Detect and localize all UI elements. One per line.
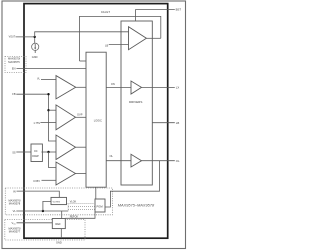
svg-text:OL: OL (110, 154, 114, 158)
svg-text:GND: GND (56, 240, 62, 244)
svg-text:MAX9577: MAX9577 (9, 229, 21, 233)
svg-text:LX: LX (176, 86, 180, 90)
svg-text:RAMP: RAMP (32, 155, 39, 158)
svg-text:MAX9578: MAX9578 (9, 201, 21, 205)
svg-text:ON: ON (111, 82, 115, 86)
svg-text:EN: EN (12, 66, 16, 70)
svg-text:PGM: PGM (97, 205, 104, 209)
svg-text:BST: BST (176, 7, 182, 11)
svg-text:FB: FB (12, 92, 16, 96)
svg-text:0.65V: 0.65V (33, 179, 40, 183)
svg-text:GND: GND (32, 55, 38, 59)
svg-text:MAX9570/: MAX9570/ (8, 57, 20, 61)
svg-text:LOGIC: LOGIC (94, 118, 102, 122)
svg-text:SS: SS (12, 150, 16, 154)
svg-text:FAULT: FAULT (101, 10, 110, 14)
svg-text:OL: OL (176, 159, 180, 163)
svg-text:REF: REF (55, 222, 61, 226)
svg-text:VL: VL (13, 209, 17, 213)
svg-text:OVP: OVP (77, 112, 83, 116)
svg-text:MAX9575–MAX9578: MAX9575–MAX9578 (118, 203, 155, 208)
svg-text:1.75V: 1.75V (33, 121, 40, 125)
svg-text:LB: LB (105, 43, 108, 47)
svg-text:MAX9575: MAX9575 (8, 60, 20, 64)
svg-text:DC: DC (34, 151, 38, 153)
svg-text:DRIVERS: DRIVERS (129, 100, 142, 104)
svg-text:REFOK: REFOK (70, 216, 79, 219)
svg-text:VL REG: VL REG (53, 201, 61, 203)
svg-text:LB: LB (176, 121, 180, 125)
svg-text:VOUT: VOUT (9, 36, 16, 39)
svg-text:IN: IN (13, 190, 16, 194)
